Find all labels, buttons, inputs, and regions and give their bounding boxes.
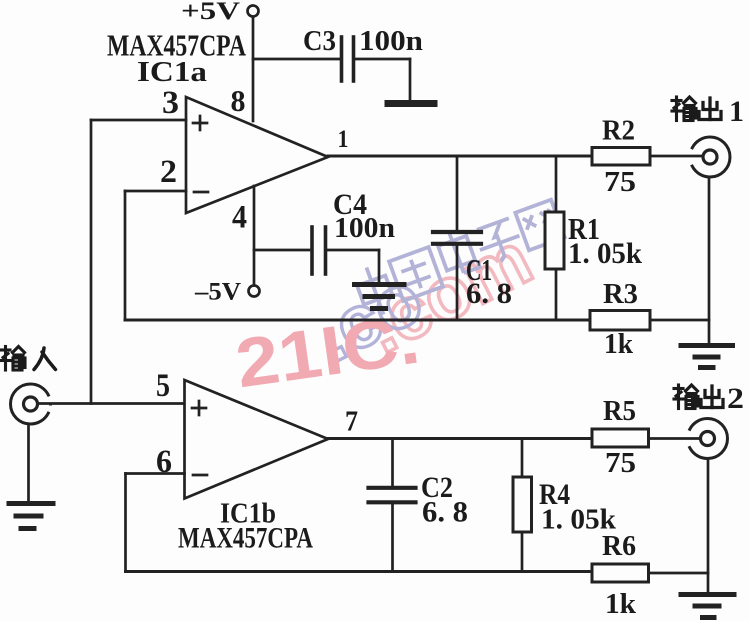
svg-text:7: 7 xyxy=(345,406,358,438)
svg-text:1k: 1k xyxy=(605,589,636,620)
svg-text:100n: 100n xyxy=(334,213,395,244)
svg-text:R2: R2 xyxy=(602,116,635,147)
svg-text:1: 1 xyxy=(729,95,744,128)
svg-text:MAX457CPA: MAX457CPA xyxy=(178,522,313,555)
svg-text:1k: 1k xyxy=(604,329,633,360)
svg-text:1. 05k: 1. 05k xyxy=(568,237,642,270)
svg-text:100n: 100n xyxy=(359,26,423,57)
svg-text:6: 6 xyxy=(156,444,172,480)
svg-text:6. 8: 6. 8 xyxy=(466,277,512,310)
svg-text:+5V: +5V xyxy=(181,0,240,25)
svg-text:R5: R5 xyxy=(603,396,636,427)
svg-text:75: 75 xyxy=(604,167,636,198)
svg-text:4: 4 xyxy=(232,200,247,236)
svg-text:2: 2 xyxy=(727,382,744,415)
svg-text:3: 3 xyxy=(162,85,179,121)
svg-text:R6: R6 xyxy=(602,531,636,562)
svg-text:6. 8: 6. 8 xyxy=(422,496,468,529)
svg-text:R3: R3 xyxy=(603,279,638,310)
svg-text:C3: C3 xyxy=(303,26,336,57)
svg-text:5: 5 xyxy=(156,368,170,404)
svg-text:–5V: –5V xyxy=(194,279,241,306)
svg-text:2: 2 xyxy=(160,154,177,190)
svg-text:75: 75 xyxy=(605,448,636,479)
svg-text:1: 1 xyxy=(338,126,349,153)
svg-text:IC1a: IC1a xyxy=(137,56,208,88)
svg-text:8: 8 xyxy=(231,83,246,118)
